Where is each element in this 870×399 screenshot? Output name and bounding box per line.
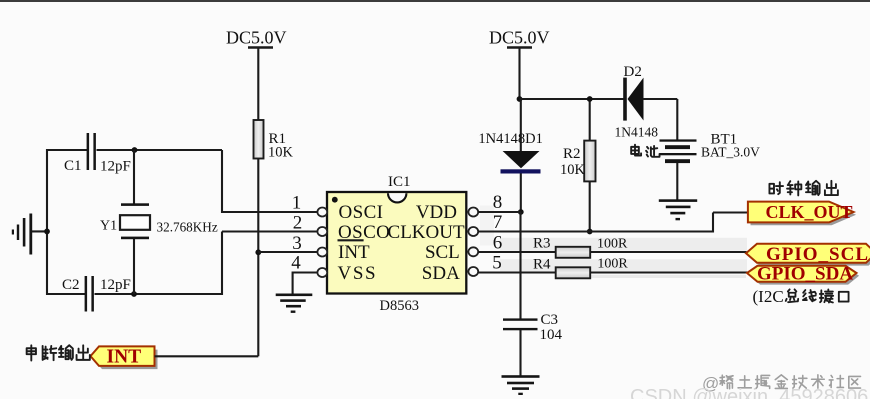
svg-text:CLK_OUT: CLK_OUT — [766, 202, 853, 222]
svg-text:D2: D2 — [624, 64, 642, 80]
svg-text:7: 7 — [493, 212, 503, 233]
svg-text:GPIO_SCL: GPIO_SCL — [766, 244, 869, 265]
svg-text:1N4148D1: 1N4148D1 — [478, 131, 542, 147]
svg-text:INT: INT — [338, 242, 370, 263]
svg-text:1N4148: 1N4148 — [615, 125, 659, 140]
svg-text:104: 104 — [540, 327, 563, 343]
svg-text:INT: INT — [107, 347, 142, 368]
svg-text:(I2C: (I2C — [753, 287, 784, 306]
svg-text:R4: R4 — [533, 257, 551, 273]
svg-text:10K: 10K — [560, 162, 586, 178]
svg-text:CLKOUT: CLKOUT — [388, 222, 465, 243]
svg-text:6: 6 — [493, 233, 503, 254]
svg-text:R2: R2 — [563, 146, 581, 162]
svg-text:C1: C1 — [64, 158, 82, 174]
svg-text:4: 4 — [291, 253, 301, 274]
svg-text:OSCI: OSCI — [339, 202, 384, 223]
svg-text:100R: 100R — [597, 236, 628, 251]
svg-text:CSDN @weixin_45928606: CSDN @weixin_45928606 — [630, 386, 868, 399]
svg-text:2: 2 — [293, 213, 303, 234]
svg-text:5: 5 — [492, 253, 502, 274]
svg-text:8: 8 — [493, 192, 503, 213]
svg-text:R3: R3 — [533, 235, 551, 251]
svg-text:C3: C3 — [541, 312, 559, 328]
svg-text:Y1: Y1 — [100, 219, 117, 234]
svg-text:BAT_3.0V: BAT_3.0V — [701, 145, 760, 160]
svg-text:SCL: SCL — [425, 242, 460, 263]
svg-text:VSS: VSS — [338, 263, 378, 284]
svg-text:DC5.0V: DC5.0V — [226, 28, 287, 48]
svg-text:12pF: 12pF — [100, 159, 131, 175]
svg-text:SDA: SDA — [422, 263, 460, 284]
svg-text:32.768KHz: 32.768KHz — [157, 220, 218, 235]
svg-text:C2: C2 — [62, 277, 80, 293]
svg-text:GPIO_SDA: GPIO_SDA — [757, 264, 853, 285]
svg-text:3: 3 — [292, 233, 302, 254]
svg-text:1: 1 — [292, 193, 302, 214]
svg-text:DC5.0V: DC5.0V — [489, 28, 550, 48]
svg-text:12pF: 12pF — [100, 277, 131, 293]
svg-text:VDD: VDD — [416, 202, 457, 223]
svg-text:100R: 100R — [597, 256, 628, 271]
svg-text:10K: 10K — [268, 145, 294, 161]
svg-text:D8563: D8563 — [380, 298, 419, 314]
svg-text:IC1: IC1 — [388, 174, 411, 190]
